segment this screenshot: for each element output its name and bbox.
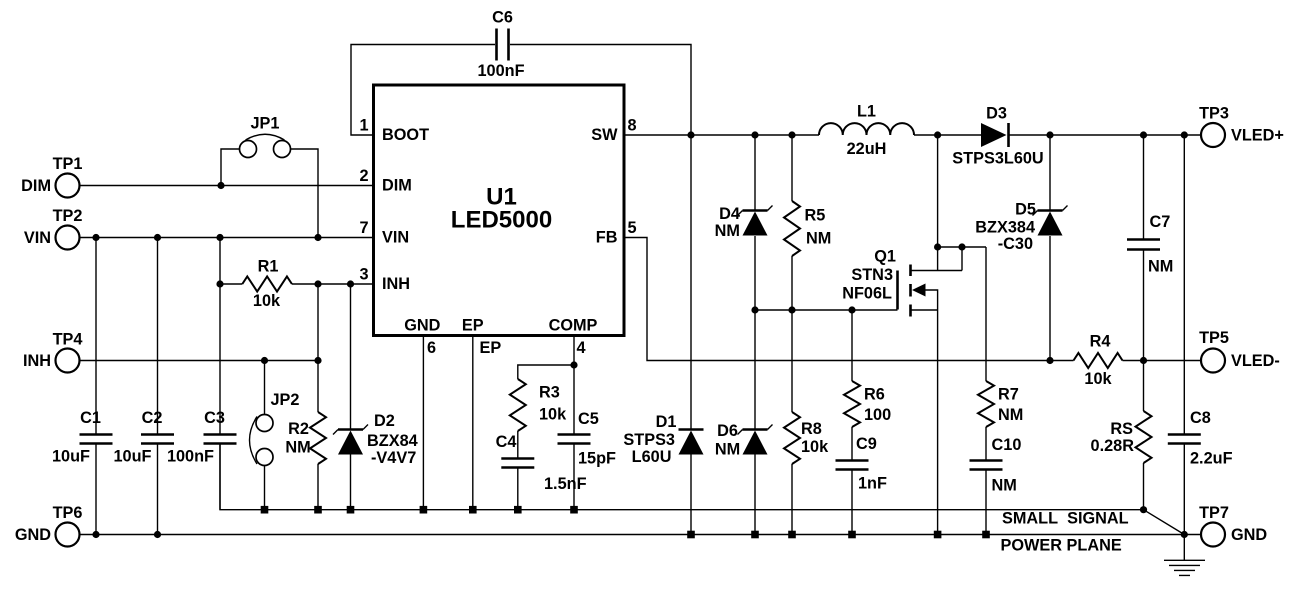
svg-text:VIN: VIN	[382, 229, 409, 247]
svg-text:C8: C8	[1190, 409, 1211, 427]
wire DIM line TP1 to pin 2	[80, 185, 374, 187]
svg-text:VLED-: VLED-	[1231, 352, 1280, 370]
svg-text:GND: GND	[404, 317, 440, 335]
capacitor C1	[80, 238, 113, 535]
svg-text:D5: D5	[1015, 201, 1036, 219]
svg-text:R7: R7	[998, 386, 1019, 404]
svg-text:R1: R1	[258, 258, 279, 276]
svg-text:DIM: DIM	[21, 177, 51, 195]
svg-text:C6: C6	[492, 9, 513, 27]
svg-text:15pF: 15pF	[578, 450, 616, 468]
capacitor C2	[141, 238, 174, 535]
wire FB pin 5 route to VLED-	[624, 238, 1202, 361]
svg-text:NM: NM	[715, 441, 740, 459]
svg-text:INH: INH	[23, 352, 51, 370]
svg-text:D3: D3	[986, 105, 1007, 123]
svg-text:NF06L: NF06L	[842, 285, 892, 303]
wire D4/D6 column	[754, 135, 756, 535]
wire D5 column	[1049, 135, 1051, 361]
svg-text:STPS3L60U: STPS3L60U	[952, 150, 1043, 168]
svg-text:SMALL SIGNAL: SMALL SIGNAL	[1002, 510, 1129, 528]
wire C8 column	[1183, 135, 1185, 535]
svg-text:10uF: 10uF	[113, 448, 151, 466]
resistor R6	[844, 381, 860, 427]
wire C7/RS column	[1143, 135, 1145, 510]
transistor Q1 STN3NF06L	[898, 135, 987, 535]
svg-text:NM: NM	[1148, 258, 1173, 276]
svg-text:TP5: TP5	[1199, 329, 1229, 347]
svg-text:BZX384: BZX384	[975, 219, 1035, 237]
diode D1	[679, 430, 704, 455]
svg-text:NM: NM	[992, 477, 1017, 495]
capacitor C6	[497, 29, 509, 61]
svg-text:C3: C3	[204, 409, 225, 427]
svg-text:2.2uF: 2.2uF	[1190, 450, 1233, 468]
svg-text:10k: 10k	[253, 292, 281, 310]
diode D3	[981, 123, 1009, 147]
svg-text:DIM: DIM	[382, 177, 412, 195]
capacitor C4	[501, 431, 534, 510]
wire EP pin to small-signal bus	[472, 336, 474, 510]
svg-text:L1: L1	[857, 103, 876, 121]
svg-text:1.5nF: 1.5nF	[544, 475, 587, 493]
svg-text:C4: C4	[496, 433, 517, 451]
svg-text:100nF: 100nF	[167, 448, 214, 466]
resistor R1	[242, 277, 292, 292]
svg-text:C10: C10	[992, 436, 1022, 454]
wire Q1 gate line	[755, 309, 898, 311]
svg-text:R5: R5	[805, 207, 826, 225]
svg-text:VLED+: VLED+	[1231, 127, 1284, 145]
svg-text:SW: SW	[591, 126, 618, 144]
wire INH pin3 line	[220, 283, 374, 285]
resistor R7 NM	[978, 381, 994, 427]
svg-text:NM: NM	[285, 439, 310, 457]
svg-text:D4: D4	[719, 205, 740, 223]
test point TP6	[56, 523, 80, 547]
resistor R4	[1074, 353, 1123, 368]
svg-text:L60U: L60U	[632, 448, 672, 466]
capacitor C10	[970, 461, 1003, 470]
resistor R5 NM	[784, 201, 800, 256]
capacitor C8	[1168, 435, 1201, 444]
wire R6/C9 column	[851, 310, 853, 535]
svg-text:TP1: TP1	[53, 155, 83, 173]
svg-text:GND: GND	[1231, 526, 1267, 544]
svg-text:D2: D2	[374, 412, 395, 430]
svg-text:6: 6	[427, 339, 436, 357]
svg-text:EP: EP	[462, 317, 484, 335]
resistor RS 0.28R	[1136, 411, 1152, 463]
svg-text:D1: D1	[656, 413, 677, 431]
svg-text:1nF: 1nF	[858, 475, 887, 493]
test point TP3	[1201, 123, 1225, 147]
svg-text:10k: 10k	[801, 438, 829, 456]
wire BOOT pin1 loop to C6 left	[351, 45, 495, 136]
svg-text:1: 1	[359, 116, 368, 134]
svg-text:POWER PLANE: POWER PLANE	[1001, 537, 1122, 555]
svg-text:C2: C2	[142, 409, 163, 427]
resistor R8	[784, 412, 800, 464]
svg-text:-V4V7: -V4V7	[371, 449, 416, 467]
ground symbol	[1164, 535, 1205, 576]
wire C6 right to SW node	[510, 45, 691, 136]
svg-text:10k: 10k	[539, 406, 567, 424]
small-signal bus vias (squares)	[261, 506, 578, 514]
svg-text:5: 5	[627, 219, 636, 237]
svg-text:NM: NM	[998, 406, 1023, 424]
wire power plane bus (GND line)	[80, 534, 1185, 536]
wire R7/C10 column	[985, 247, 987, 535]
svg-text:2: 2	[359, 167, 368, 185]
resistor R2	[317, 284, 319, 510]
svg-text:100nF: 100nF	[477, 62, 524, 80]
wire TP7 stub	[1184, 534, 1201, 536]
svg-text:D6: D6	[717, 422, 738, 440]
svg-text:INH: INH	[382, 275, 410, 293]
capacitor C7 NM	[1127, 240, 1160, 250]
svg-text:FB: FB	[596, 229, 618, 247]
svg-text:TP6: TP6	[53, 504, 83, 522]
diode D4 zener NM	[738, 206, 773, 236]
wire GND pin 6 to small-signal bus	[422, 336, 424, 510]
wire SW pin 8 rail	[624, 134, 1202, 136]
svg-text:-C30: -C30	[998, 235, 1033, 253]
capacitor C9	[836, 461, 869, 470]
wire R5/R8 column	[791, 135, 793, 535]
jumper JP1	[221, 134, 318, 237]
svg-text:R3: R3	[539, 384, 560, 402]
wire diagonal small-signal to power junction	[1144, 510, 1185, 535]
svg-text:R6: R6	[864, 386, 885, 404]
svg-text:TP3: TP3	[1199, 105, 1229, 123]
test point TP1	[56, 174, 80, 198]
svg-text:NM: NM	[715, 222, 740, 240]
inductor L1	[819, 123, 914, 135]
wire VIN line TP2 to pin 7	[80, 237, 374, 239]
svg-text:RS: RS	[1110, 420, 1133, 438]
svg-text:EP: EP	[480, 339, 502, 357]
test point TP7	[1201, 523, 1225, 547]
test point TP2	[56, 226, 80, 250]
svg-text:10k: 10k	[1084, 370, 1112, 388]
svg-text:0.28R: 0.28R	[1091, 437, 1135, 455]
svg-text:COMP: COMP	[549, 317, 598, 335]
wire TP4 INH line	[80, 360, 319, 362]
wire D1 / C6-drop column	[690, 135, 692, 535]
svg-text:R8: R8	[801, 420, 822, 438]
svg-text:R4: R4	[1090, 333, 1111, 351]
svg-text:GND: GND	[15, 526, 51, 544]
svg-text:BOOT: BOOT	[382, 126, 429, 144]
svg-text:4: 4	[576, 339, 585, 357]
svg-text:C9: C9	[856, 435, 877, 453]
svg-text:STN3: STN3	[851, 266, 893, 284]
diode D2 zener	[333, 284, 368, 510]
diode D5 zener	[1033, 206, 1068, 236]
svg-text:7: 7	[359, 219, 368, 237]
svg-text:LED5000: LED5000	[451, 207, 552, 234]
svg-text:TP4: TP4	[53, 331, 83, 349]
wire small-signal ground bus	[220, 444, 1144, 510]
svg-text:3: 3	[359, 265, 368, 283]
svg-text:22uH: 22uH	[847, 140, 887, 158]
svg-text:Q1: Q1	[874, 248, 896, 266]
diode D6 zener NM	[738, 425, 773, 455]
svg-text:100: 100	[864, 406, 891, 424]
capacitor C3	[204, 238, 237, 510]
test point TP4	[56, 349, 80, 373]
resistor R3	[510, 379, 526, 431]
jumper JP2	[250, 361, 274, 510]
svg-text:JP1: JP1	[251, 115, 280, 133]
power plane vias (squares)	[687, 531, 990, 539]
svg-text:8: 8	[627, 116, 636, 134]
wire COMP pin 4	[518, 336, 574, 380]
svg-text:C5: C5	[578, 410, 599, 428]
svg-text:TP2: TP2	[53, 207, 83, 225]
svg-text:JP2: JP2	[271, 391, 300, 409]
svg-text:STPS3: STPS3	[623, 431, 675, 449]
svg-text:C1: C1	[80, 409, 101, 427]
op-amp U1 LED5000 (IC box)	[374, 85, 625, 336]
svg-text:NM: NM	[806, 230, 831, 248]
svg-text:BZX84: BZX84	[367, 432, 418, 450]
svg-text:10uF: 10uF	[52, 448, 90, 466]
svg-text:R2: R2	[288, 420, 309, 438]
svg-text:TP7: TP7	[1199, 504, 1229, 522]
capacitor C5	[558, 365, 591, 510]
svg-text:VIN: VIN	[24, 229, 51, 247]
test point TP5	[1201, 349, 1225, 373]
svg-text:C7: C7	[1150, 213, 1171, 231]
